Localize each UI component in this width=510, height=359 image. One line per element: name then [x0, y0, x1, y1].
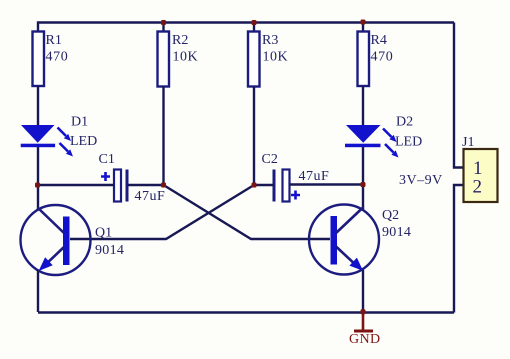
svg-text:9014: 9014	[95, 243, 124, 258]
wire R3 to node	[253, 87, 255, 186]
svg-text:470: 470	[46, 50, 69, 65]
svg-text:Q2: Q2	[382, 208, 399, 223]
connector J1	[462, 135, 498, 202]
wire R2 to node	[162, 87, 164, 186]
svg-text:C1: C1	[99, 152, 115, 167]
wire Q2 emitter to bottom rail	[362, 270, 364, 312]
svg-text:D2: D2	[396, 115, 413, 130]
svg-text:R1: R1	[46, 33, 62, 48]
svg-text:47uF: 47uF	[299, 169, 330, 184]
node D1 C1	[35, 183, 40, 188]
node C2 D2	[361, 182, 366, 187]
node R4 top	[361, 20, 366, 25]
svg-text:3V–9V: 3V–9V	[399, 173, 443, 188]
wire R1 to D1	[37, 86, 39, 126]
resistor R3	[248, 23, 288, 87]
node R3 C2	[252, 183, 257, 188]
wire R4 to D2	[362, 86, 364, 126]
resistor R1	[33, 32, 69, 87]
svg-text:2: 2	[473, 177, 483, 198]
LED D1	[21, 115, 98, 157]
svg-text:LED: LED	[395, 135, 422, 150]
resistor R4	[358, 23, 394, 87]
svg-text:GND: GND	[349, 332, 381, 347]
wire cross coupling R3 node to Q1 base	[70, 185, 254, 239]
ground	[349, 313, 381, 347]
svg-text:47uF: 47uF	[135, 189, 166, 204]
wire D1 to Q1	[37, 147, 39, 210]
wire cross coupling R2 node to Q2 base	[164, 185, 331, 239]
wire D1 node to C1	[38, 184, 114, 186]
svg-text:D1: D1	[71, 115, 88, 130]
wire C1 to R2 node	[127, 184, 164, 186]
wire C2 to D2 node	[290, 183, 363, 185]
capacitor C1	[99, 152, 166, 204]
wire bottom rail	[38, 311, 454, 313]
transistor Q2	[309, 205, 411, 275]
svg-text:R3: R3	[262, 33, 278, 48]
LED D2	[345, 115, 422, 158]
wire Q1 emitter to bottom rail	[37, 270, 39, 312]
wire J1 pin 2 to bottom rail	[454, 185, 463, 313]
wire D2 to Q2	[362, 147, 364, 210]
svg-text:LED: LED	[70, 134, 97, 149]
svg-text:9014: 9014	[382, 225, 411, 240]
node GND junction	[361, 309, 366, 314]
svg-text:470: 470	[371, 50, 394, 65]
capacitor C2	[262, 152, 330, 202]
svg-text:Q1: Q1	[95, 225, 112, 240]
svg-text:10K: 10K	[173, 50, 199, 65]
wire right rail to J1 pin 1	[454, 23, 463, 168]
wire R3 node to C2	[254, 184, 274, 186]
svg-text:10K: 10K	[263, 50, 289, 65]
node R2 C1	[161, 183, 166, 188]
transistor Q1	[21, 205, 125, 275]
svg-text:C2: C2	[262, 152, 278, 167]
wire top rail	[38, 23, 454, 33]
svg-text:J1: J1	[462, 135, 474, 150]
node R3 top	[252, 20, 257, 25]
node R2 top	[161, 20, 166, 25]
svg-text:R4: R4	[371, 33, 387, 48]
resistor R2	[158, 23, 199, 87]
svg-text:R2: R2	[172, 33, 188, 48]
